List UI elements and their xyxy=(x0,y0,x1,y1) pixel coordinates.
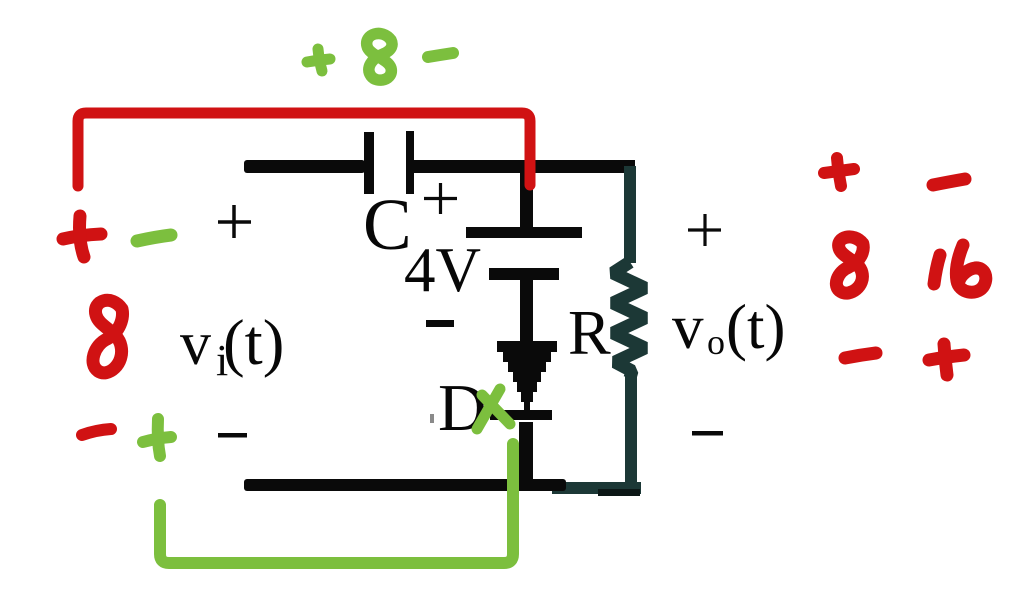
annotation: green + (left bottom) xyxy=(143,437,171,442)
annotation: red + (right top) xyxy=(824,169,854,173)
annotation: red 8 (right) xyxy=(836,237,863,293)
battery 4V short plate xyxy=(489,268,559,280)
svg-text:R: R xyxy=(568,297,611,368)
svg-text:v: v xyxy=(672,292,704,362)
vi + sign xyxy=(218,205,251,238)
svg-text:(t): (t) xyxy=(726,292,785,362)
battery positive label + xyxy=(424,183,457,214)
vo + sign xyxy=(688,214,721,246)
wire: diode cathode to bottom node xyxy=(519,422,533,488)
battery negative label - xyxy=(426,320,454,327)
svg-text:(t): (t) xyxy=(223,307,284,379)
battery 4V long plate xyxy=(466,227,582,238)
wire: bottom return corner shadow xyxy=(598,489,640,496)
annotation: red + (right bottom) xyxy=(929,355,964,360)
capacitor C right plate xyxy=(406,131,414,194)
svg-text:v: v xyxy=(180,310,211,378)
vi - sign xyxy=(218,433,247,438)
capacitor C left plate xyxy=(364,132,374,194)
wire: green annotation loop (bottom) xyxy=(160,444,513,563)
annotation: green X over diode xyxy=(482,395,510,424)
wire: top node black lead (vi+ to capacitor left plate) xyxy=(244,160,365,173)
annotation: green + (top, of +8-) xyxy=(307,59,330,62)
annotation: red + (left top) xyxy=(63,234,101,239)
vo - sign xyxy=(692,431,723,436)
annotation: green - (left top) xyxy=(137,235,171,241)
wire: red annotation loop (top) xyxy=(78,113,530,186)
annotation: red - (right bottom) xyxy=(845,353,876,358)
wire: node A to resistor top (teal branch) xyxy=(624,166,636,263)
annotation: red - (left bottom) xyxy=(82,429,111,435)
wire: resistor bottom to bottom node (teal) xyxy=(625,376,637,488)
resistor R zigzag xyxy=(613,262,645,378)
svg-text:o: o xyxy=(707,322,725,362)
wire: capacitor right plate to node A (top wire) xyxy=(413,160,635,173)
diode D triangle (anode) xyxy=(497,341,557,411)
annotation: red - (right top) xyxy=(933,179,965,185)
annotation: green 8 (top) xyxy=(367,33,392,80)
svg-text:4V: 4V xyxy=(404,235,481,305)
wire: bottom return (black part) xyxy=(244,479,566,491)
annotation: green - (top, of +8-) xyxy=(428,53,453,57)
wire: bottom return (teal part) xyxy=(552,482,641,494)
annotation: red 8 (left) xyxy=(93,300,122,373)
diode D cathode bar xyxy=(490,410,552,420)
wire: node A stem down to battery top plate xyxy=(520,170,533,228)
stray gray tick xyxy=(430,414,434,423)
wire: battery bottom plate to diode anode xyxy=(520,280,533,343)
annotation: red 16 (right) xyxy=(934,255,940,284)
